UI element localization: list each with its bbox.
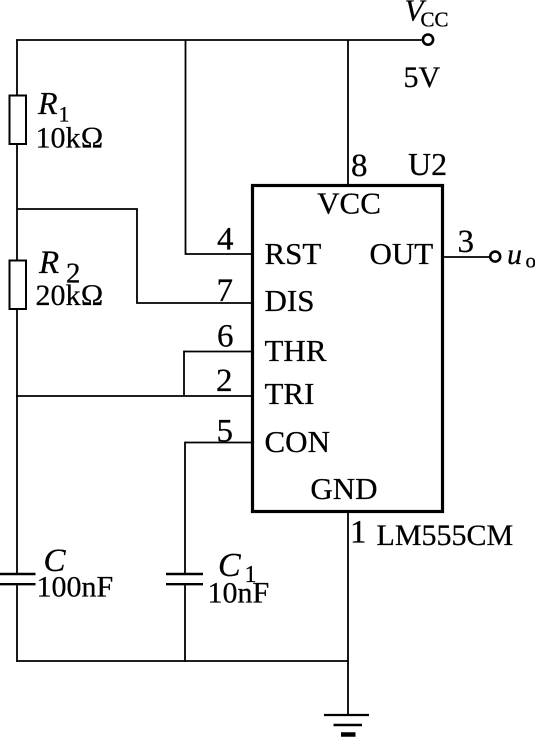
svg-text:OUT: OUT <box>370 236 434 271</box>
IC U2 LM555CM 555-timer body box <box>253 186 443 512</box>
wire bottom rail <box>16 660 349 662</box>
ground <box>324 715 369 735</box>
wire CON pin5 <box>185 442 252 444</box>
svg-text:DIS: DIS <box>265 283 315 318</box>
svg-text:THR: THR <box>265 333 327 368</box>
wire RST pin4 path <box>186 40 252 254</box>
svg-text:R: R <box>38 245 59 281</box>
wire pin8 vertical <box>347 40 349 185</box>
wire THR-TRI connector <box>183 351 185 396</box>
terminal circle OUT <box>490 252 500 262</box>
svg-text:U2: U2 <box>408 146 447 182</box>
svg-text:o: o <box>526 249 535 273</box>
svg-text:10nF: 10nF <box>208 577 270 610</box>
svg-text:CON: CON <box>265 424 330 459</box>
resistor R1 body <box>10 96 27 145</box>
svg-text:3: 3 <box>458 224 475 260</box>
svg-text:5V: 5V <box>404 61 441 94</box>
wire DIS pin7 path <box>17 209 252 303</box>
wire OUT pin3 <box>444 256 490 258</box>
resistor R2 body <box>10 261 27 310</box>
wire CON to C1 upper <box>184 442 186 574</box>
wire TRI pin2 <box>16 395 251 397</box>
wire top rail VCC <box>16 39 421 41</box>
svg-text:20kΩ: 20kΩ <box>36 279 104 312</box>
svg-text:5: 5 <box>217 414 234 450</box>
svg-text:10kΩ: 10kΩ <box>36 122 104 155</box>
wire C1 lower <box>184 584 186 662</box>
svg-text:2: 2 <box>216 363 233 399</box>
svg-text:1: 1 <box>350 515 367 551</box>
capacitor C plates <box>0 574 36 584</box>
capacitor C1 plates <box>166 574 203 584</box>
svg-text:GND: GND <box>310 471 377 506</box>
wire THR pin6 <box>184 351 252 353</box>
svg-text:CC: CC <box>421 8 449 32</box>
svg-text:VCC: VCC <box>317 186 381 221</box>
svg-text:8: 8 <box>351 148 368 184</box>
svg-text:u: u <box>507 238 522 271</box>
svg-text:RST: RST <box>265 236 322 271</box>
svg-text:TRI: TRI <box>265 376 315 411</box>
svg-text:4: 4 <box>217 222 234 258</box>
svg-text:R: R <box>37 85 58 121</box>
svg-text:LM555CM: LM555CM <box>377 519 514 552</box>
svg-text:100nF: 100nF <box>37 571 114 604</box>
wire left rail upper <box>16 39 18 574</box>
wire GND pin1 vertical <box>347 512 349 715</box>
terminal circle VCC <box>423 35 433 45</box>
svg-text:6: 6 <box>217 319 234 355</box>
wire left rail lower <box>16 584 18 662</box>
svg-text:7: 7 <box>217 273 234 309</box>
